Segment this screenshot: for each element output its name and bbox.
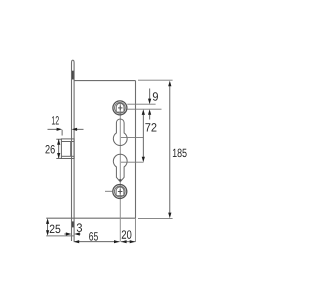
- label 12: [52, 116, 59, 124]
- arrow dim65 left: [74, 240, 80, 243]
- dim 185 shaft: [169, 86, 171, 214]
- arrow dim185 up: [168, 81, 171, 87]
- dim 9 lower shaft: [149, 114, 151, 120]
- lock case right edge: [135, 81, 137, 219]
- arrow dim26 down: [57, 153, 60, 159]
- follower U1 square insert: [116, 103, 124, 112]
- dim 12 extension tick: [61, 130, 63, 136]
- label 65: [89, 232, 98, 241]
- euro cylinder hole (upper, slot up): [113, 119, 127, 146]
- dim 12 right line: [76, 128, 84, 130]
- arrow dim72 up: [142, 109, 145, 115]
- dim 25 shaft: [47, 223, 49, 231]
- latch bolt outline: [61, 139, 74, 159]
- faceplate bottom end line: [46, 235, 74, 237]
- label 185: [173, 149, 187, 158]
- latch bolt lower bevel line: [61, 155, 74, 157]
- arrow dim20 right: [130, 240, 136, 243]
- label 9: [153, 92, 158, 101]
- dim 3 left line: [64, 233, 68, 235]
- follower U2 square insert: [116, 187, 124, 196]
- follower U1 crosshair: [118, 107, 123, 109]
- arrow dim20 left: [121, 240, 127, 243]
- arrow dim12 right: [72, 128, 78, 131]
- label 20: [122, 230, 132, 239]
- label 25: [50, 225, 61, 234]
- arrow dim25 up: [46, 218, 49, 224]
- lock case top edge: [74, 80, 135, 82]
- arrow dim185 down: [168, 213, 171, 219]
- arrow dim12 left: [57, 128, 63, 131]
- extension line from square top: [127, 103, 155, 105]
- faceplate top weld fill: [72, 71, 74, 80]
- lock case bottom edge (extends left as extension line for 25): [46, 217, 135, 219]
- lower cylinder centre dash: [121, 161, 144, 163]
- extension line from follower centre: [127, 108, 161, 110]
- follower U2 (bottom spindle hole) outer circle: [113, 185, 127, 199]
- latch bolt face line: [70, 142, 72, 157]
- euro cylinder hole (lower, slot down): [113, 154, 127, 181]
- right edge extension to dim line: [134, 218, 136, 242]
- dim 3 right line: [78, 233, 81, 235]
- latch bolt upper bevel line: [61, 141, 74, 143]
- dim 26 top tick: [56, 138, 61, 140]
- follower U2 inner circle: [114, 186, 125, 197]
- follower U1 (top spindle hole) outer circle: [113, 101, 127, 115]
- arrow dim72 down: [142, 157, 145, 163]
- follower U1 inner circle: [115, 103, 126, 114]
- arrow dim25 down: [46, 230, 49, 236]
- dim 9 upper shaft: [149, 89, 151, 100]
- dim 185 bottom extension: [138, 217, 173, 219]
- label 26: [45, 145, 54, 154]
- dim 72 shaft: [142, 115, 144, 157]
- arrow dim3 left: [66, 232, 72, 235]
- dim 185 top extension: [138, 79, 173, 81]
- label 72: [145, 123, 156, 131]
- label 3: [77, 223, 82, 232]
- arrow dim9 up: [148, 109, 151, 115]
- vertical centre line through holes: [119, 104, 121, 242]
- arrow dim3 right: [74, 232, 80, 235]
- dim 12 left line: [48, 128, 58, 130]
- faceplate: [72, 60, 75, 241]
- dim 65 line: [74, 241, 120, 243]
- arrow dim26 up: [57, 139, 60, 145]
- dim 26 bottom tick: [56, 157, 61, 159]
- dim 26 shaft: [58, 139, 60, 158]
- lower cylinder slot dark tip: [119, 179, 122, 182]
- follower U2 crosshair: [118, 191, 123, 193]
- dim 20 line: [121, 241, 135, 243]
- upper cylinder centre dash: [121, 137, 143, 139]
- faceplate bottom weld fill: [72, 221, 74, 227]
- follower U2 left centre dash: [105, 190, 112, 192]
- arrow dim65 right: [114, 240, 120, 243]
- arrow dim9 down: [148, 99, 151, 105]
